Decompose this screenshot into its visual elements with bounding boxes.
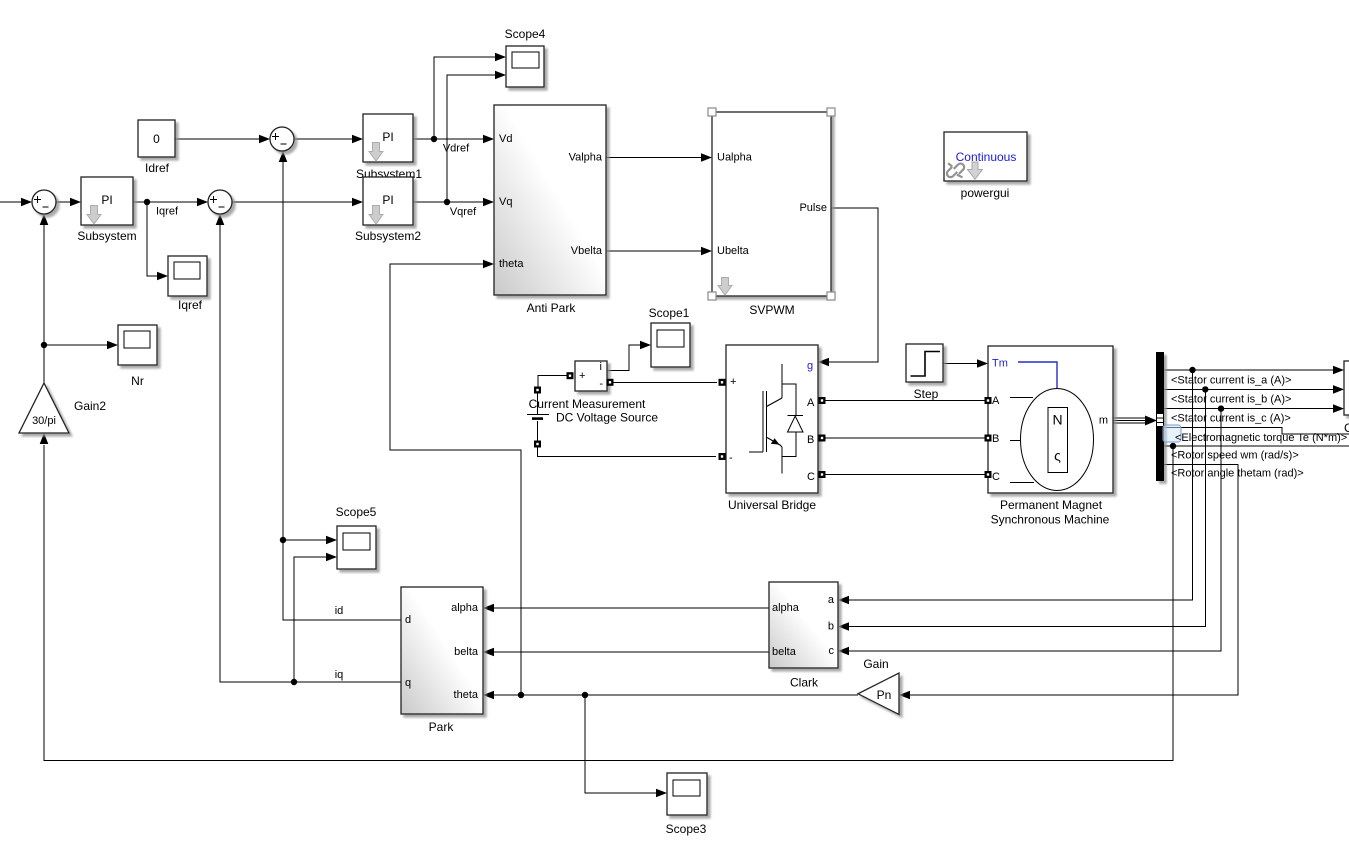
sum S1 (speed error)	[32, 190, 56, 214]
subsystem Park transform (flipped)	[401, 587, 483, 734]
svg-text:SVPWM: SVPWM	[749, 303, 794, 317]
svg-text:theta: theta	[499, 258, 524, 270]
node Vdref junction	[431, 136, 437, 142]
selection handle top-left	[708, 108, 716, 116]
wire sum S1 to Subsystem PI	[56, 198, 81, 207]
gain Gain2 30/pi	[19, 383, 106, 433]
wire stator current is_b from bus selector	[1164, 385, 1344, 394]
wire branch theta to Scope3	[585, 695, 667, 797]
wire branch Iqref to scope Iqref	[147, 202, 168, 280]
svg-text:Universal Bridge: Universal Bridge	[728, 498, 816, 512]
svg-text:PI: PI	[382, 130, 393, 144]
scope Scope4	[505, 27, 546, 87]
port square bridge minus	[719, 453, 726, 460]
svg-text:<Stator current is_c (A)>: <Stator current is_c (A)>	[1171, 413, 1291, 425]
svg-text:Pulse: Pulse	[799, 202, 827, 214]
svg-text:C: C	[992, 471, 1000, 483]
node speed junction at Nr	[41, 342, 47, 348]
svg-text:DC Voltage Source: DC Voltage Source	[556, 411, 658, 425]
svg-text:Gain: Gain	[863, 657, 888, 671]
scope Nr	[118, 325, 157, 388]
svg-text:N: N	[1052, 412, 1062, 428]
svg-text:Ubelta: Ubelta	[717, 245, 750, 257]
svg-text:PI: PI	[382, 193, 393, 207]
signal highlight box on torque line	[1163, 425, 1181, 442]
wire is_b branch to Clark b	[838, 389, 1205, 630]
node Vqref junction	[444, 199, 450, 205]
svg-text:d: d	[405, 614, 411, 626]
svg-text:Tm: Tm	[992, 358, 1008, 370]
wire rotor angle thetam from bus selector to Gain Pn	[899, 464, 1238, 699]
bus selector input port icon	[1157, 414, 1164, 427]
svg-text:Vbelta: Vbelta	[571, 245, 603, 257]
wire Gain2 output to sum S1 bottom	[40, 214, 49, 383]
subsystem Subsystem1 (d-axis PI)	[356, 114, 422, 181]
node iq junction	[291, 679, 297, 685]
svg-text:Scope4: Scope4	[505, 27, 546, 41]
subsystem Clark transform (flipped)	[769, 582, 838, 690]
svg-text:Idref: Idref	[145, 161, 170, 175]
wire electromagnetic torque Te from bus selector	[1164, 428, 1349, 435]
block Universal Bridge	[726, 345, 818, 512]
wire Vbelta: Anti Park to SVPWM Ubelta	[606, 247, 712, 256]
scope Iqref	[168, 256, 207, 312]
svg-text:Subsystem: Subsystem	[77, 229, 136, 243]
source DC Voltage Source (battery)	[527, 393, 658, 441]
bridge IGBT and diode icon	[749, 364, 803, 474]
svg-text:Valpha: Valpha	[569, 152, 603, 164]
svg-text:<Stator current is_a (A)>: <Stator current is_a (A)>	[1171, 375, 1291, 387]
PMSM winding stubs	[1010, 398, 1034, 483]
svg-text:q: q	[405, 677, 411, 689]
port square bridge A	[819, 397, 826, 404]
svg-text:Anti Park: Anti Park	[527, 301, 577, 315]
svg-text:C: C	[807, 471, 815, 483]
wire Current Measurement minus to Universal Bridge plus	[613, 381, 717, 383]
svg-text:Step: Step	[914, 387, 939, 401]
wire rotor speed feedback to Gain2	[40, 433, 1173, 761]
wire Pulse: SVPWM to Universal Bridge g	[818, 208, 878, 366]
svg-text:c: c	[829, 645, 835, 657]
svg-text:ς: ς	[1054, 448, 1061, 464]
svg-text:Pn: Pn	[877, 688, 892, 702]
svg-text:Ualpha: Ualpha	[717, 152, 753, 164]
subsystem Anti Park	[494, 105, 606, 315]
wire is_c branch to Clark c	[838, 409, 1221, 656]
svg-text:b: b	[828, 621, 834, 633]
selection handle top-right	[827, 108, 835, 116]
svg-text:-: -	[599, 378, 603, 390]
wire branch to scope Nr	[44, 341, 118, 350]
svg-text:30/pi: 30/pi	[32, 415, 56, 427]
wire branch id to Scope5 input 1	[283, 536, 337, 545]
svg-text:Nr: Nr	[131, 374, 144, 388]
wire Current Measurement i to Scope1	[607, 341, 651, 371]
svg-text:<Electromagnetic torque Te (N*: <Electromagnetic torque Te (N*m)>	[1175, 432, 1347, 444]
node is_c junction	[1218, 405, 1224, 411]
wire stator current is_c from bus selector	[1164, 404, 1344, 413]
svg-text:alpha: alpha	[451, 602, 479, 614]
scope at right edge (clipped)	[1344, 361, 1349, 435]
wire branch Vdref to Scope4 input 1	[434, 53, 506, 139]
port square battery plus	[534, 387, 541, 394]
wire rotor speed wm from bus selector	[1164, 443, 1349, 449]
wire Vdref: Subsystem1 to Anti Park Vd	[413, 135, 494, 144]
PMSM rotor ellipse	[1021, 389, 1094, 491]
svg-text:<Stator current is_b (A)>: <Stator current is_b (A)>	[1171, 394, 1291, 406]
source Step	[906, 344, 943, 401]
svg-text:C: C	[1344, 421, 1349, 435]
scope Scope3	[666, 773, 707, 836]
subsystem SVPWM (selected)	[708, 108, 835, 317]
bus selector bar	[1156, 352, 1164, 481]
svg-text:+: +	[579, 370, 585, 382]
svg-text:m: m	[1099, 415, 1108, 427]
subsystem Subsystem (speed PI)	[77, 177, 136, 243]
gain Pn (flipped)	[858, 657, 899, 715]
block Current Measurement	[529, 361, 646, 411]
powergui down arrow icon	[968, 162, 983, 179]
PMSM internal Tm wire	[1018, 362, 1057, 388]
wire sum S3 to Subsystem1	[294, 135, 363, 144]
wire bridge phase B to PMSM B	[825, 437, 985, 439]
svg-text:Vq: Vq	[499, 196, 512, 208]
wire Subsystem output Iqref to sum S2	[133, 198, 208, 207]
svg-text:Continuous: Continuous	[956, 150, 1017, 164]
subsystem Subsystem2 (q-axis PI)	[355, 177, 421, 243]
svg-text:Iqref: Iqref	[156, 206, 179, 218]
wire branch Vqref to Scope4 input 2	[447, 71, 506, 202]
wire speed reference input to sum S1	[0, 198, 32, 207]
wire m bus: PMSM to Bus Selector	[1113, 416, 1157, 426]
sum S2 (iq error)	[208, 190, 232, 214]
wire theta to Anti Park theta input	[390, 260, 521, 695]
wire Valpha: Anti Park to SVPWM Ualpha	[606, 153, 712, 162]
svg-text:Scope1: Scope1	[649, 306, 690, 320]
node Iqref junction	[144, 199, 150, 205]
port square PMSM B	[985, 435, 992, 442]
port square PMSM C	[985, 471, 992, 478]
port square bridge B	[819, 435, 826, 442]
svg-text:Synchronous Machine: Synchronous Machine	[991, 513, 1110, 527]
svg-text:B: B	[992, 433, 999, 445]
wire Clark alpha to Park alpha	[483, 604, 769, 613]
wire sum S2 to Subsystem2	[232, 198, 363, 207]
wire iq feedback: Park q to sum S2 bottom	[216, 214, 401, 685]
node is_b junction	[1202, 386, 1208, 392]
powergui broken link icon	[947, 163, 964, 177]
wire branch iq to Scope5 input 2	[294, 553, 337, 682]
svg-text:Gain2: Gain2	[74, 399, 106, 413]
wire bridge phase A to PMSM A	[825, 400, 985, 402]
wire bridge phase C to PMSM C	[825, 474, 985, 476]
wire Vqref: Subsystem2 to Anti Park Vq	[413, 198, 494, 207]
scope Scope5	[336, 505, 377, 569]
svg-text:powergui: powergui	[961, 186, 1010, 200]
port square CM plus	[567, 372, 574, 379]
port square battery minus	[534, 441, 541, 448]
svg-text:belta: belta	[772, 646, 797, 658]
svg-text:i: i	[600, 361, 602, 373]
svg-text:id: id	[335, 605, 344, 617]
wire Idref constant to sum S3	[175, 135, 270, 144]
block powergui (Continuous)	[944, 132, 1027, 200]
wire id feedback: Park d to sum S3 bottom	[279, 151, 401, 620]
machine Permanent Magnet Synchronous Machine	[988, 346, 1113, 527]
wire DC source minus to Universal Bridge minus	[538, 447, 717, 457]
svg-text:<Rotor angle thetam (rad)>: <Rotor angle thetam (rad)>	[1171, 468, 1304, 480]
selection handle bottom-left	[708, 292, 716, 300]
node rotor speed junction	[1170, 443, 1176, 449]
svg-text:A: A	[992, 395, 1000, 407]
svg-text:iq: iq	[335, 669, 344, 681]
scope Scope1	[649, 306, 690, 367]
svg-text:<Rotor speed wm (rad/s)>: <Rotor speed wm (rad/s)>	[1171, 450, 1299, 462]
wire stator current is_a from bus selector	[1164, 366, 1344, 375]
sum S3 (id error)	[270, 127, 294, 151]
node theta junction 2	[582, 692, 588, 698]
svg-text:belta: belta	[454, 646, 479, 658]
svg-text:Vd: Vd	[499, 133, 512, 145]
svg-text:alpha: alpha	[772, 602, 800, 614]
node theta junction 1	[518, 692, 524, 698]
svg-text:Park: Park	[429, 720, 455, 734]
constant Idref value 0	[138, 120, 175, 175]
svg-text:Scope5: Scope5	[336, 505, 377, 519]
port square CM minus out	[607, 379, 614, 386]
selection handle bottom-right	[827, 292, 835, 300]
port square PMSM A	[985, 397, 992, 404]
svg-text:g: g	[807, 360, 813, 372]
wire theta: Gain Pn output to Park theta	[483, 691, 858, 700]
svg-text:Vdref: Vdref	[443, 143, 470, 155]
svg-text:Iqref: Iqref	[178, 298, 203, 312]
svg-text:Permanent Magnet: Permanent Magnet	[1000, 498, 1103, 512]
svg-text:A: A	[807, 397, 815, 409]
svg-text:Clark: Clark	[790, 676, 819, 690]
svg-text:-: -	[729, 452, 733, 464]
svg-text:Scope3: Scope3	[666, 822, 707, 836]
svg-text:B: B	[807, 434, 814, 446]
wire DC source plus loop to Current Measurement plus	[538, 376, 567, 387]
svg-text:PI: PI	[101, 193, 112, 207]
wire Clark belta to Park belta	[483, 648, 769, 657]
svg-text:+: +	[730, 376, 736, 388]
svg-text:a: a	[828, 594, 835, 606]
svg-text:theta: theta	[454, 689, 479, 701]
svg-text:Current Measurement: Current Measurement	[529, 397, 646, 411]
svg-text:Vqref: Vqref	[450, 206, 477, 218]
node is_a junction	[1189, 367, 1195, 373]
svg-text:Subsystem2: Subsystem2	[355, 229, 421, 243]
port square bridge C	[819, 471, 826, 478]
wire is_a branch to Clark a	[838, 370, 1193, 604]
wire Step to PMSM Tm	[943, 359, 988, 368]
svg-text:0: 0	[153, 132, 160, 146]
port square bridge plus	[719, 379, 726, 386]
node id junction	[280, 537, 286, 543]
PMSM magnet rectangle	[1048, 408, 1068, 473]
